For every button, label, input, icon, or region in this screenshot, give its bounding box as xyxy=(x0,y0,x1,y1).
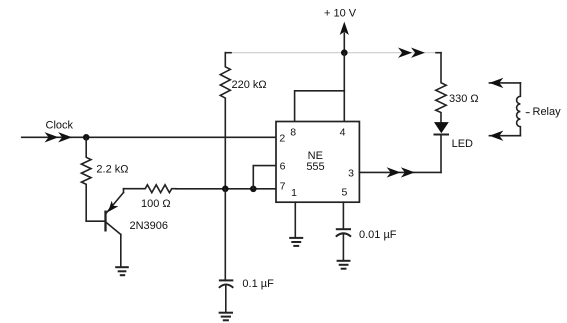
svg-text:4: 4 xyxy=(340,127,346,139)
svg-text:555: 555 xyxy=(306,161,324,173)
power +10 V arrow xyxy=(340,22,349,53)
arrow clock 2 xyxy=(58,132,72,142)
ground pin 1 xyxy=(289,238,303,246)
node pin6 branch junction xyxy=(250,186,257,193)
svg-text:Relay: Relay xyxy=(533,106,562,118)
arrow pin3 2 xyxy=(401,167,415,177)
wire +V down to pin 4 xyxy=(343,53,345,122)
node power junction xyxy=(341,49,348,56)
wire pin 1 to ground xyxy=(294,202,296,238)
svg-text:6: 6 xyxy=(280,160,286,172)
wire pin 8 up and over to +V line xyxy=(295,91,345,122)
arrow pin3 1 xyxy=(387,167,401,177)
wire base lead xyxy=(86,220,104,222)
wire top rail left corner stub xyxy=(225,52,231,54)
resistor R4 330 Ohm xyxy=(436,53,446,122)
svg-text:100 Ω: 100 Ω xyxy=(141,198,171,210)
arrow rail 1 xyxy=(398,48,412,58)
svg-text:LED: LED xyxy=(452,138,473,150)
capacitor C1 0.1 uF xyxy=(219,189,233,313)
svg-text:1: 1 xyxy=(291,187,297,199)
wire top +V rail (light) xyxy=(225,52,441,54)
resistor R2 2.2 kOhm xyxy=(81,137,91,221)
ground under C1 xyxy=(219,313,233,321)
node R-C junction xyxy=(222,186,229,193)
svg-text:2N3906: 2N3906 xyxy=(130,220,169,232)
resistor R1 220 kOhm xyxy=(220,53,230,138)
svg-text:2.2 kΩ: 2.2 kΩ xyxy=(96,164,128,176)
svg-text:7: 7 xyxy=(280,181,286,193)
svg-text:NE: NE xyxy=(308,150,323,162)
resistor R3 100 Ohm xyxy=(124,185,177,193)
relay coil xyxy=(489,78,529,141)
svg-text:+ 10 V: + 10 V xyxy=(324,8,357,20)
op IC U1 NE555 body xyxy=(276,122,359,203)
svg-text:8: 8 xyxy=(290,127,296,139)
wire pin 5 down xyxy=(342,202,344,229)
ground under transistor xyxy=(115,267,129,275)
wire pin 3 output xyxy=(359,171,441,173)
diode LED xyxy=(434,122,450,172)
svg-text:3: 3 xyxy=(348,167,354,179)
node clock junction xyxy=(83,134,90,141)
wire R1 bottom to node xyxy=(224,137,226,189)
transistor Q1 2N3906 xyxy=(106,189,124,268)
svg-text:5: 5 xyxy=(341,187,347,199)
svg-text:330 Ω: 330 Ω xyxy=(449,93,479,105)
svg-text:0.1 µF: 0.1 µF xyxy=(242,278,274,290)
svg-text:0.01 µF: 0.01 µF xyxy=(359,229,397,241)
wire pin 6 branch xyxy=(253,166,276,189)
wire clock input line xyxy=(22,136,276,138)
wire top rail right corner stub xyxy=(436,52,441,54)
arrow clock 1 xyxy=(45,132,59,142)
arrow rail 2 xyxy=(411,48,425,58)
capacitor C2 0.01 uF xyxy=(336,229,351,261)
svg-text:220 kΩ: 220 kΩ xyxy=(232,79,267,91)
svg-text:Clock: Clock xyxy=(46,120,74,132)
ground under C2 xyxy=(337,261,351,269)
wire R3 to pin 7 xyxy=(176,188,276,190)
svg-text:2: 2 xyxy=(279,132,285,144)
